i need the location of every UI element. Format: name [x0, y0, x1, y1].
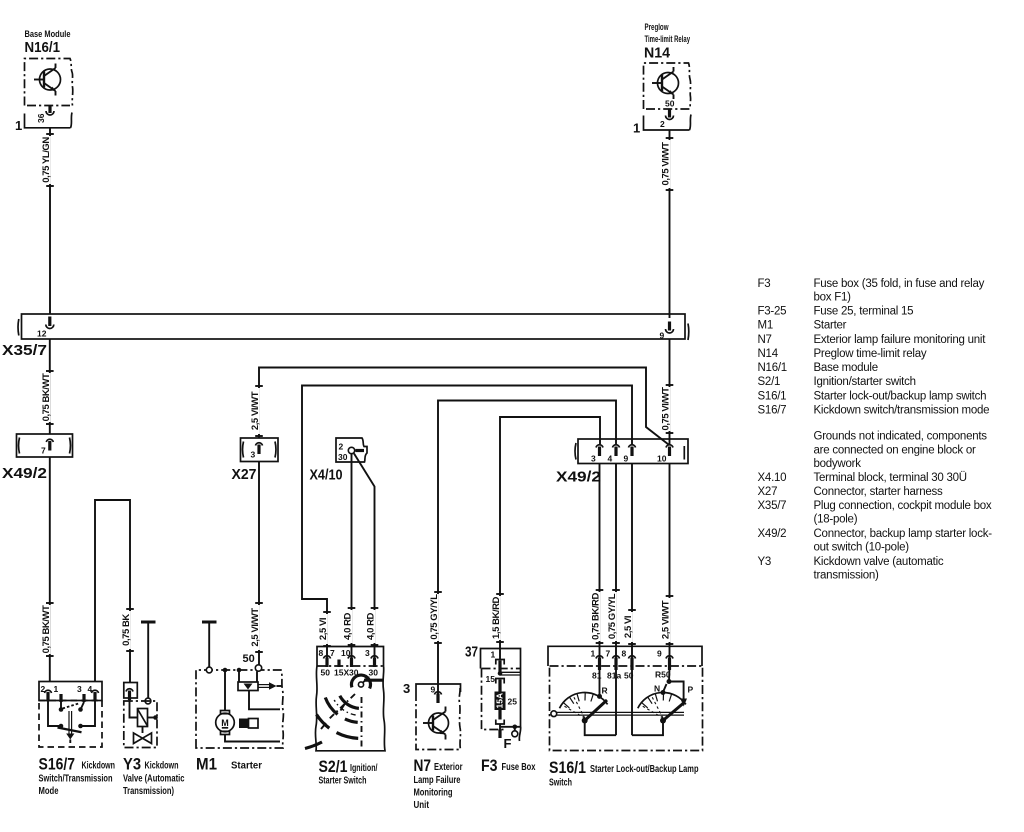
pin 9 of X49/2 right — [624, 445, 636, 464]
svg-text:N7: N7 — [758, 334, 772, 346]
starter M1 body box — [196, 670, 283, 748]
svg-text:15A: 15A — [495, 693, 505, 709]
pin 9 of X35/7 — [660, 322, 674, 341]
pin 1 of F3 — [491, 650, 505, 673]
S16/1 selector shaft — [551, 711, 684, 717]
svg-text:0,75 YL/GN: 0,75 YL/GN — [41, 137, 52, 183]
svg-text:X35/7: X35/7 — [2, 342, 47, 359]
pin 3 of S2/1 — [371, 656, 378, 667]
F3 caption — [481, 756, 536, 775]
svg-text:1: 1 — [54, 684, 59, 694]
kickdown switch S16/7 connector row — [39, 682, 102, 701]
svg-text:Transmission): Transmission) — [123, 786, 174, 797]
svg-text:1,5 BK/RD: 1,5 BK/RD — [491, 596, 502, 638]
connector X49/2 (left) — [2, 434, 73, 482]
pin 3 of X27 — [251, 443, 263, 460]
svg-text:4,0 RD: 4,0 RD — [343, 612, 354, 639]
svg-text:F3: F3 — [758, 278, 771, 290]
S16/1 caption — [549, 758, 699, 789]
pin 10 of S2/1 — [348, 656, 355, 667]
wire X4/10 to S2/1 terminal 30 (right) — [354, 454, 378, 659]
transistor inside N16/1 — [34, 64, 61, 96]
svg-text:10: 10 — [657, 454, 667, 464]
pin 9 of N7 — [431, 685, 442, 704]
svg-text:3: 3 — [251, 450, 256, 460]
svg-text:Ignition/: Ignition/ — [350, 763, 378, 774]
svg-text:2: 2 — [339, 442, 344, 452]
M1 ground terminal circle — [206, 667, 212, 673]
svg-text:Monitoring: Monitoring — [414, 788, 453, 799]
S16/1 right wiper (N and P positions) — [632, 668, 694, 735]
svg-text:Kickdown switch/transmission m: Kickdown switch/transmission mode — [814, 405, 990, 417]
svg-text:1: 1 — [491, 650, 496, 660]
svg-text:X35/7: X35/7 — [758, 500, 787, 512]
pin 12 of X35/7 — [37, 317, 54, 339]
plug connection X35/7 bus bar — [2, 314, 689, 359]
svg-text:9: 9 — [657, 649, 662, 659]
pin 2 of S16/7 — [45, 690, 52, 701]
svg-text:0,75 BK: 0,75 BK — [121, 614, 132, 646]
svg-text:X27: X27 — [758, 486, 778, 498]
S16/1 left gate fan — [560, 692, 608, 718]
base module N16/1 body box — [25, 59, 73, 106]
svg-text:2,5 VI/WT: 2,5 VI/WT — [250, 608, 261, 647]
wire X49/2 pin 9 to S16/1 pin 8 — [623, 464, 636, 658]
svg-text:Ignition/starter switch: Ignition/starter switch — [814, 376, 916, 388]
Y3 valve butterfly symbol — [134, 727, 152, 744]
svg-text:Switch: Switch — [549, 778, 572, 789]
wire X27 pin 3 to starter terminal 50 — [250, 462, 263, 665]
M1 pinion engagement block — [239, 719, 258, 729]
connector 1 bracket of N14 — [633, 115, 691, 136]
svg-text:Base Module: Base Module — [25, 29, 71, 39]
wire X49/2 pin 7 to S16/7 pin 2 — [41, 457, 54, 682]
svg-text:7: 7 — [330, 648, 335, 658]
wire X27 pin 3 to X49/2 pin 10 (top run) — [250, 368, 669, 445]
ground for Y3 — [141, 622, 156, 704]
svg-text:bodywork: bodywork — [814, 458, 862, 470]
pin 7 of X49/2 left — [41, 439, 53, 455]
transistor inside N14 — [652, 67, 679, 99]
S2/1 caption — [319, 757, 378, 787]
svg-text:Kickdown: Kickdown — [145, 761, 179, 772]
svg-text:Connector, starter harness: Connector, starter harness — [814, 486, 944, 498]
wire X49/2 pin 4 to N7 pin 9 — [429, 401, 616, 695]
wire X49/2 pin 10 to S16/1 pin 9 — [661, 464, 674, 658]
fuse box F3 body box — [482, 669, 521, 730]
wire N14 pin 2 to X35/7 pin 9 — [661, 130, 674, 318]
svg-text:P: P — [688, 685, 694, 695]
wire X35/7 pin 12 to X49/2 pin 7 — [41, 339, 54, 434]
svg-text:30: 30 — [338, 452, 348, 462]
svg-text:Connector, backup lamp starter: Connector, backup lamp starter lock- — [814, 528, 993, 540]
svg-text:0,75 GY/YL: 0,75 GY/YL — [607, 593, 618, 639]
kickdown valve Y3 connector — [124, 683, 138, 701]
svg-text:2,5 VI/WT: 2,5 VI/WT — [661, 600, 672, 639]
svg-text:X49/2: X49/2 — [758, 528, 787, 540]
kickdown valve Y3 body box — [124, 701, 157, 748]
svg-text:Starter: Starter — [231, 761, 262, 772]
svg-text:N16/1: N16/1 — [25, 39, 61, 56]
svg-text:81a: 81a — [607, 671, 621, 681]
svg-text:X4/10: X4/10 — [310, 467, 343, 484]
svg-text:Plug connection, cockpit modul: Plug connection, cockpit module box — [814, 500, 992, 512]
pin 8 of S2/1 — [324, 656, 331, 667]
svg-text:X4.10: X4.10 — [758, 472, 787, 484]
svg-text:12: 12 — [37, 329, 47, 339]
svg-text:F3: F3 — [481, 756, 498, 775]
wire X4/10 to S2/1 terminal 30 (left) — [343, 454, 356, 658]
svg-text:M1: M1 — [196, 755, 217, 774]
svg-text:2: 2 — [660, 119, 665, 129]
S16/7 actuator plunger — [66, 711, 74, 743]
svg-text:50: 50 — [321, 668, 331, 678]
svg-text:Grounds not indicated, compone: Grounds not indicated, components — [814, 431, 988, 443]
svg-text:2,5 VI/WT: 2,5 VI/WT — [250, 391, 261, 430]
svg-text:R: R — [602, 686, 608, 696]
ground for M1 — [202, 622, 217, 667]
pin 4 of X49/2 right — [608, 445, 620, 464]
svg-text:36: 36 — [36, 113, 46, 123]
svg-text:25: 25 — [508, 697, 518, 707]
pin 7 of S2/1 — [337, 660, 340, 668]
svg-text:Lamp Failure: Lamp Failure — [414, 775, 461, 786]
svg-text:S16/7: S16/7 — [39, 755, 76, 774]
svg-text:S16/1: S16/1 — [758, 391, 787, 403]
svg-text:S16/1: S16/1 — [549, 758, 586, 777]
svg-text:50: 50 — [665, 99, 675, 109]
connector 1 bracket of N16/1 — [15, 113, 72, 134]
svg-text:Base module: Base module — [814, 362, 878, 374]
pin 10 of X49/2 right — [657, 445, 673, 464]
terminal block X4/10 — [310, 438, 368, 484]
fuse F3-25 element — [495, 692, 518, 725]
svg-text:3: 3 — [591, 454, 596, 464]
svg-text:Exterior lamp failure monitori: Exterior lamp failure monitoring unit — [814, 334, 987, 346]
pin 3 of S16/7 — [82, 694, 85, 702]
F3 output to terminal F — [500, 724, 521, 751]
Y3 solenoid valve — [130, 700, 158, 727]
svg-text:8: 8 — [319, 648, 324, 658]
svg-text:Fuse Box: Fuse Box — [502, 762, 536, 773]
S2/1 terminal labels — [317, 666, 384, 678]
M1 caption — [196, 755, 262, 774]
Y3 caption — [123, 755, 185, 798]
legend key table — [758, 278, 993, 582]
svg-text:Time-limit Relay: Time-limit Relay — [645, 34, 691, 44]
svg-text:box F1): box F1) — [814, 292, 852, 304]
S16/7 internal contacts — [48, 701, 95, 732]
svg-text:8: 8 — [622, 649, 627, 659]
S2/1 rotary contact pivot — [358, 677, 369, 688]
N7 caption — [414, 756, 463, 811]
M1 internal junctions — [223, 668, 257, 711]
svg-text:Terminal block, terminal 30 30: Terminal block, terminal 30 30Ü — [814, 472, 967, 484]
pin 7 of S16/1 — [613, 656, 620, 670]
wire X49/2 pin 9 to S2/1 terminal 50 — [302, 386, 632, 659]
svg-text:Starter: Starter — [814, 320, 847, 332]
svg-text:N14: N14 — [758, 348, 779, 360]
svg-text:Preglow time-limit relay: Preglow time-limit relay — [814, 348, 927, 360]
svg-text:(18-pole): (18-pole) — [814, 514, 858, 526]
svg-text:N: N — [654, 684, 660, 694]
svg-text:X49/2: X49/2 — [2, 465, 47, 482]
wire N16/1 pin 36 to X35/7 pin 12 — [41, 128, 54, 314]
S16/1 body box — [550, 666, 703, 751]
S2/1 switch body outline — [315, 666, 385, 751]
S16/1 left wiper (R position) — [582, 668, 616, 735]
base module N16/1 caption — [25, 29, 71, 56]
svg-text:S2/1: S2/1 — [758, 376, 781, 388]
pin 36 of N16/1 — [36, 106, 54, 124]
pin 9 of S16/1 — [666, 656, 673, 670]
svg-text:4,0 RD: 4,0 RD — [366, 612, 377, 639]
S2/1 dash-dot detents — [321, 694, 362, 750]
pin 1 of S16/1 — [596, 656, 603, 670]
svg-text:Starter Lock-out/Backup Lamp: Starter Lock-out/Backup Lamp — [590, 764, 699, 775]
terminal 30 stud of X4/10 — [348, 447, 364, 453]
svg-text:0,75 BK/WT: 0,75 BK/WT — [41, 605, 52, 653]
svg-text:S16/7: S16/7 — [758, 405, 787, 417]
svg-text:Switch/Transmission: Switch/Transmission — [39, 774, 113, 785]
pin 50 / 2 of N14 — [660, 99, 675, 130]
S16/7 caption — [39, 755, 116, 798]
svg-text:Unit: Unit — [414, 800, 430, 811]
svg-text:0,75 GY/YL: 0,75 GY/YL — [429, 594, 440, 640]
M1 terminal 50 — [243, 653, 262, 671]
svg-text:are connected on engine block: are connected on engine block or — [814, 445, 976, 457]
svg-text:M1: M1 — [758, 320, 773, 332]
svg-text:15: 15 — [486, 674, 496, 684]
pin 3 of X49/2 right — [591, 445, 603, 464]
exterior lamp failure monitoring unit N7 box — [403, 681, 461, 750]
wire X49/2 pin 3 to fuse F3 — [491, 417, 600, 659]
svg-text:N16/1: N16/1 — [758, 362, 787, 374]
svg-text:0,75 VI/WT: 0,75 VI/WT — [661, 387, 672, 431]
svg-text:Mode: Mode — [39, 786, 59, 797]
svg-text:15X: 15X — [334, 668, 349, 678]
svg-text:Y3: Y3 — [123, 755, 141, 774]
svg-text:Fuse 25, terminal 15: Fuse 25, terminal 15 — [814, 306, 914, 318]
svg-text:2,5 VI: 2,5 VI — [623, 616, 634, 638]
svg-text:N14: N14 — [644, 45, 671, 62]
M1 starter motor — [216, 711, 280, 742]
connector X27 — [232, 438, 279, 483]
svg-text:0,75 BK/RD: 0,75 BK/RD — [591, 593, 602, 640]
svg-text:Fuse box (35 fold, in fuse and: Fuse box (35 fold, in fuse and relay — [814, 278, 985, 290]
wire X49/2 pin 4 to S16/1 pin 7 — [607, 464, 620, 658]
svg-text:Exterior: Exterior — [434, 762, 463, 773]
svg-text:Starter lock-out/backup lamp s: Starter lock-out/backup lamp switch — [814, 391, 987, 403]
svg-text:X27: X27 — [232, 466, 257, 483]
svg-text:out switch (10-pole): out switch (10-pole) — [814, 542, 910, 554]
ignition starter switch S2/1 connector row — [317, 647, 384, 667]
svg-text:4: 4 — [608, 454, 613, 464]
svg-text:Valve (Automatic: Valve (Automatic — [123, 774, 185, 785]
starter lock-out/backup lamp switch S16/1 connector row — [548, 646, 702, 666]
svg-text:30: 30 — [369, 668, 379, 678]
kickdown switch S16/7 body box — [39, 701, 102, 748]
svg-text:Starter Switch: Starter Switch — [319, 776, 367, 787]
svg-text:M: M — [221, 718, 229, 728]
svg-text:F: F — [504, 736, 512, 751]
svg-text:X49/2: X49/2 — [556, 469, 601, 486]
svg-text:37: 37 — [465, 644, 478, 661]
S2/1 rotary contact arc and bar — [351, 675, 383, 688]
transistor inside N7 — [423, 707, 449, 740]
fuse box F3 connector 37 — [465, 644, 521, 742]
preglow time-limit relay N14 body box — [644, 63, 691, 109]
svg-text:0,75 VI/WT: 0,75 VI/WT — [661, 142, 672, 186]
svg-text:S2/1: S2/1 — [319, 757, 348, 776]
svg-text:2,5 VI: 2,5 VI — [318, 618, 329, 640]
wire S16/7 pin 4 bridge to Y3 — [95, 500, 134, 683]
svg-text:9: 9 — [624, 454, 629, 464]
connector X49/2 (right) — [556, 439, 688, 486]
S16/1 right gate fan — [638, 692, 686, 718]
svg-text:1: 1 — [15, 118, 22, 133]
svg-text:transmission): transmission) — [814, 570, 880, 582]
svg-text:1: 1 — [633, 121, 640, 136]
F3 terminal 15 busbar — [486, 671, 521, 691]
svg-text:Y3: Y3 — [758, 556, 772, 568]
svg-text:Kickdown valve (automatic: Kickdown valve (automatic — [814, 556, 944, 568]
svg-text:50: 50 — [243, 653, 255, 665]
pin 1 of S16/7 — [59, 694, 62, 702]
svg-text:0,75 BK/WT: 0,75 BK/WT — [41, 373, 52, 421]
preglow time-limit relay N14 caption — [644, 22, 690, 62]
svg-text:1: 1 — [591, 649, 596, 659]
svg-text:7: 7 — [606, 649, 611, 659]
svg-text:Kickdown: Kickdown — [82, 761, 116, 772]
svg-text:3: 3 — [365, 648, 370, 658]
svg-text:7: 7 — [41, 446, 46, 456]
wire X35/7 pin 9 to X49/2 pin 10 — [661, 339, 674, 444]
svg-text:3: 3 — [403, 681, 410, 696]
M1 solenoid relay — [238, 682, 282, 709]
wire X49/2 pin 3 to S16/1 pin 1 — [591, 464, 604, 658]
svg-text:N7: N7 — [414, 756, 432, 775]
svg-text:9: 9 — [660, 331, 665, 341]
svg-text:F3-25: F3-25 — [758, 306, 787, 318]
pin 4 of S16/7 — [92, 690, 99, 701]
S2/1 switch position arcs — [305, 696, 359, 749]
svg-text:Preglow: Preglow — [645, 22, 670, 32]
svg-text:3: 3 — [77, 684, 82, 694]
pin 8 of S16/1 — [629, 656, 636, 670]
